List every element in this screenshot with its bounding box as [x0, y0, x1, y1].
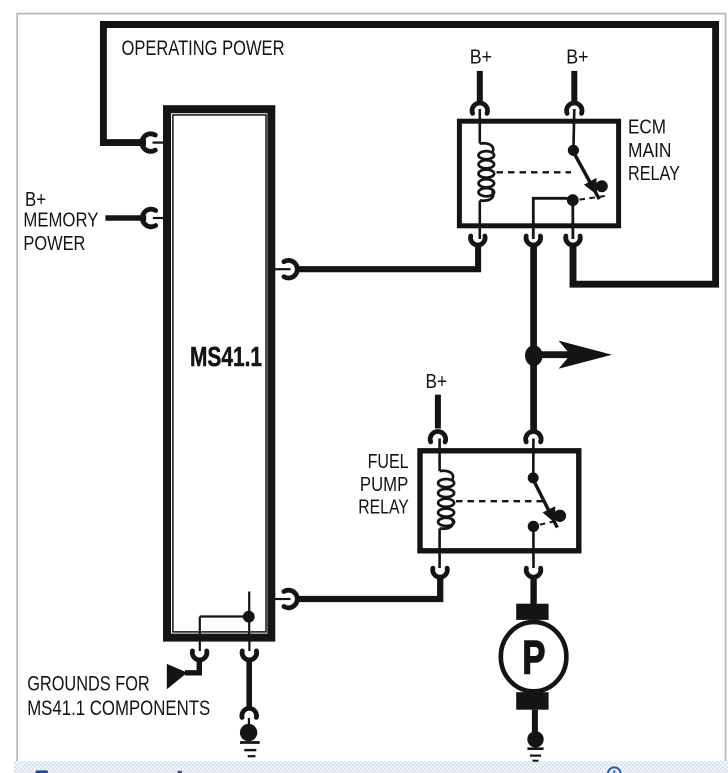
relay K2 output pin [532, 529, 535, 568]
svg-text:POWER: POWER [23, 233, 85, 255]
wire: fuel pump relay output to pump motor [530, 577, 536, 605]
connector: MS41.1 bottom left ground pin [199, 640, 201, 651]
connector: inline connector pin [248, 718, 250, 726]
connector: operating power into MS41.1 (pin) [153, 142, 165, 144]
connector: B+ socket arc left [472, 103, 487, 113]
node: internal ground junction dot [243, 611, 255, 623]
svg-text:B+: B+ [566, 47, 588, 69]
connector: operating power into MS41.1 (socket arc) [142, 134, 155, 152]
connector: K1 bottom arc middle [526, 236, 541, 245]
motor M1 fuel pump body [501, 622, 567, 691]
connector: B+ socket arc fuel relay [430, 431, 445, 441]
UI: small dark mark bottom [178, 771, 183, 773]
relay K2 switch pivot dot [528, 472, 539, 483]
connector: K1 bottom arc right [566, 236, 581, 245]
wire: branch arrow shaft [534, 351, 574, 358]
wire: B+ memory power stub [105, 215, 146, 221]
connector: bottom right socket arc [242, 651, 257, 660]
relay K1 actuation dashed line [497, 171, 572, 173]
ground hatch lines [240, 741, 260, 744]
svg-text:RELAY: RELAY [358, 496, 409, 518]
connector: MS41.1 lower right output pin [275, 598, 291, 600]
connector: bottom left socket arc [192, 651, 207, 660]
relay K2 alternate position dashed [540, 520, 563, 525]
relay K2 actuation dashed line [456, 500, 543, 502]
ground: pump ball terminal [527, 731, 543, 747]
wire: B+ stub left [477, 71, 483, 101]
connector: B+ socket arc right [567, 103, 582, 113]
wire: MS41.1 output to fuel pump relay coil [297, 577, 441, 600]
connector: K2 switch feed socket arc [526, 431, 541, 441]
svg-text:RELAY: RELAY [628, 163, 680, 185]
relay K1 coil pin bottom [478, 201, 481, 240]
wire: internal ground branch horizontal [200, 615, 248, 617]
relay K1 output pin right terminal [571, 205, 574, 239]
relay K2 coil pin bottom [438, 529, 441, 569]
connector: memory power pin [153, 217, 164, 219]
ground: ball terminal [240, 724, 257, 741]
svg-text:PUMP: PUMP [360, 474, 408, 496]
svg-text:B+: B+ [426, 371, 448, 393]
wire: to chassis ground arrow [185, 662, 199, 673]
node: junction dot with branch arrow [525, 345, 543, 366]
relay K2 fuel pump relay box [420, 451, 579, 551]
svg-text:B+: B+ [470, 47, 492, 69]
connector: K2 bottom arc coil [433, 568, 448, 577]
relay K1 alternate position dashed [580, 196, 606, 200]
wire: internal ground branch vertical [199, 617, 201, 641]
ground: chassis ground arrow (triangle) [167, 664, 188, 689]
relay K2 switch arm [533, 480, 557, 528]
relay K1 contact dot lower [567, 194, 579, 206]
UI: zoom-in icon bottom right (cropped) [608, 767, 621, 773]
wire: pump to ground [532, 710, 538, 732]
connector: memory power socket arc [142, 209, 155, 227]
relay K2 switch pin from feed [532, 439, 535, 475]
wire: internal ground stub vertical [248, 592, 250, 641]
relay K2 coil [440, 471, 453, 481]
wire: main power loop (top + right side) [103, 25, 715, 285]
relay K1 ECM main relay box [459, 121, 618, 226]
relay K1 contact dot right [596, 180, 608, 192]
ground hatch lines pump [527, 747, 543, 750]
ECU MS41.1 box [167, 109, 271, 637]
UI: blue icon bottom left (cropped) [36, 770, 49, 773]
connector: MS41.1 bottom right ground pin [248, 640, 250, 651]
svg-text:GROUNDS FOR: GROUNDS FOR [27, 672, 150, 695]
wire: K1 output down to fuel pump relay [530, 246, 537, 430]
relay K1 switch arm arrowhead [584, 178, 597, 195]
connector: MS41.1 upper right output pin [275, 268, 291, 270]
svg-text:MS41.1 COMPONENTS: MS41.1 COMPONENTS [27, 697, 210, 720]
svg-text:MEMORY: MEMORY [23, 210, 98, 232]
connector: K2 bottom arc switch [526, 568, 541, 577]
svg-text:P: P [522, 631, 545, 684]
wire: MS41.1 output to ECM relay coil [297, 246, 479, 270]
branch arrowhead to other circuits [559, 341, 613, 369]
connector: inline connector arc [242, 708, 257, 717]
svg-text:FUEL: FUEL [368, 451, 409, 473]
relay K1 coil pin top [478, 109, 481, 144]
relay K2 coil pin top [438, 439, 441, 472]
connector: K1 bottom arc coil [471, 236, 486, 245]
wire: B+ stub right [571, 71, 577, 101]
relay K1 switch pin from B+ [572, 109, 575, 147]
wire: B+ stub fuel relay [435, 395, 441, 429]
svg-text:MS41.1: MS41.1 [190, 341, 262, 372]
svg-text:ECM: ECM [628, 117, 666, 139]
relay K2 contact dot right [554, 510, 566, 522]
connector: MS41.1 upper right socket arc [284, 260, 297, 278]
svg-text:MAIN: MAIN [628, 140, 672, 162]
connector: MS41.1 lower right socket arc [284, 590, 297, 608]
bottom dithered strip [14, 761, 728, 773]
relay K1 output pin L-path to middle terminal [533, 198, 567, 239]
svg-text:OPERATING POWER: OPERATING POWER [122, 37, 285, 60]
motor M1 fuel pump bottom terminal [516, 692, 548, 710]
relay K2 switch arm arrowhead [543, 506, 556, 523]
MS41.1 inner outline [173, 115, 266, 632]
svg-text:B+: B+ [25, 189, 46, 211]
relay K1 switch pivot dot [568, 145, 579, 156]
wire: ground lead down [246, 661, 252, 708]
motor M1 fuel pump top terminal [516, 604, 548, 620]
relay K1 coil [480, 143, 493, 153]
relay K2 contact dot lower [528, 521, 539, 532]
relay K1 switch arm [573, 152, 599, 199]
